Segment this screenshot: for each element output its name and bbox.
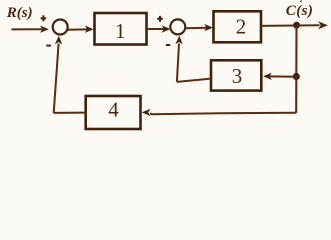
- arrowhead into summer 1: [40, 26, 49, 33]
- wire block 2 to output node: [261, 25, 297, 27]
- arrowhead into summer 2: [162, 25, 171, 32]
- block 2: [214, 11, 262, 42]
- minus sign at summer 2: [166, 44, 170, 46]
- wire summer 2 to block 2: [186, 27, 207, 29]
- node output pick-off dot: [293, 22, 300, 29]
- arrowhead into summer 1 bottom: [55, 36, 62, 45]
- summing junction 2: [170, 19, 185, 34]
- wire block 4 output to riser: [54, 112, 86, 114]
- arrowhead into block 1: [85, 26, 94, 33]
- node feedback junction dot: [293, 73, 300, 80]
- svg-text:2: 2: [236, 15, 247, 39]
- wire output node down to bottom loop: [295, 26, 297, 113]
- wire R(s) to summer 1: [12, 28, 43, 30]
- plus sign at summer 1: [41, 15, 47, 21]
- wire riser up into summer 2: [177, 44, 179, 82]
- block 4: [86, 96, 141, 129]
- wire riser up into summer 1: [54, 44, 59, 113]
- wire block 1 to summer 2: [146, 28, 164, 30]
- svg-text:3: 3: [232, 64, 243, 88]
- arrowhead into block 3 (pointing left): [263, 73, 272, 80]
- arrowhead to C(s): [297, 24, 320, 26]
- wire summer 1 to block 1: [68, 28, 88, 30]
- wire junction to block 3: [270, 75, 297, 77]
- svg-text:R(s): R(s): [6, 5, 33, 21]
- ink speck above C(s): [300, 0, 302, 2]
- arrowhead into block 4 (pointing left): [142, 109, 151, 116]
- svg-text:4: 4: [108, 98, 119, 122]
- summing junction 1: [53, 20, 68, 35]
- svg-text:1: 1: [115, 19, 126, 43]
- arrowhead into summer 2 bottom: [175, 36, 182, 45]
- block 1: [95, 13, 147, 45]
- wire bottom loop from drop to block 4: [150, 113, 296, 114]
- svg-text:C(s): C(s): [286, 3, 313, 19]
- plus sign at summer 2: [157, 16, 163, 22]
- wire block 3 output to riser: [177, 79, 211, 82]
- block 3: [211, 60, 261, 90]
- minus sign at summer 1: [46, 45, 51, 47]
- arrowhead into block 2: [204, 24, 213, 31]
